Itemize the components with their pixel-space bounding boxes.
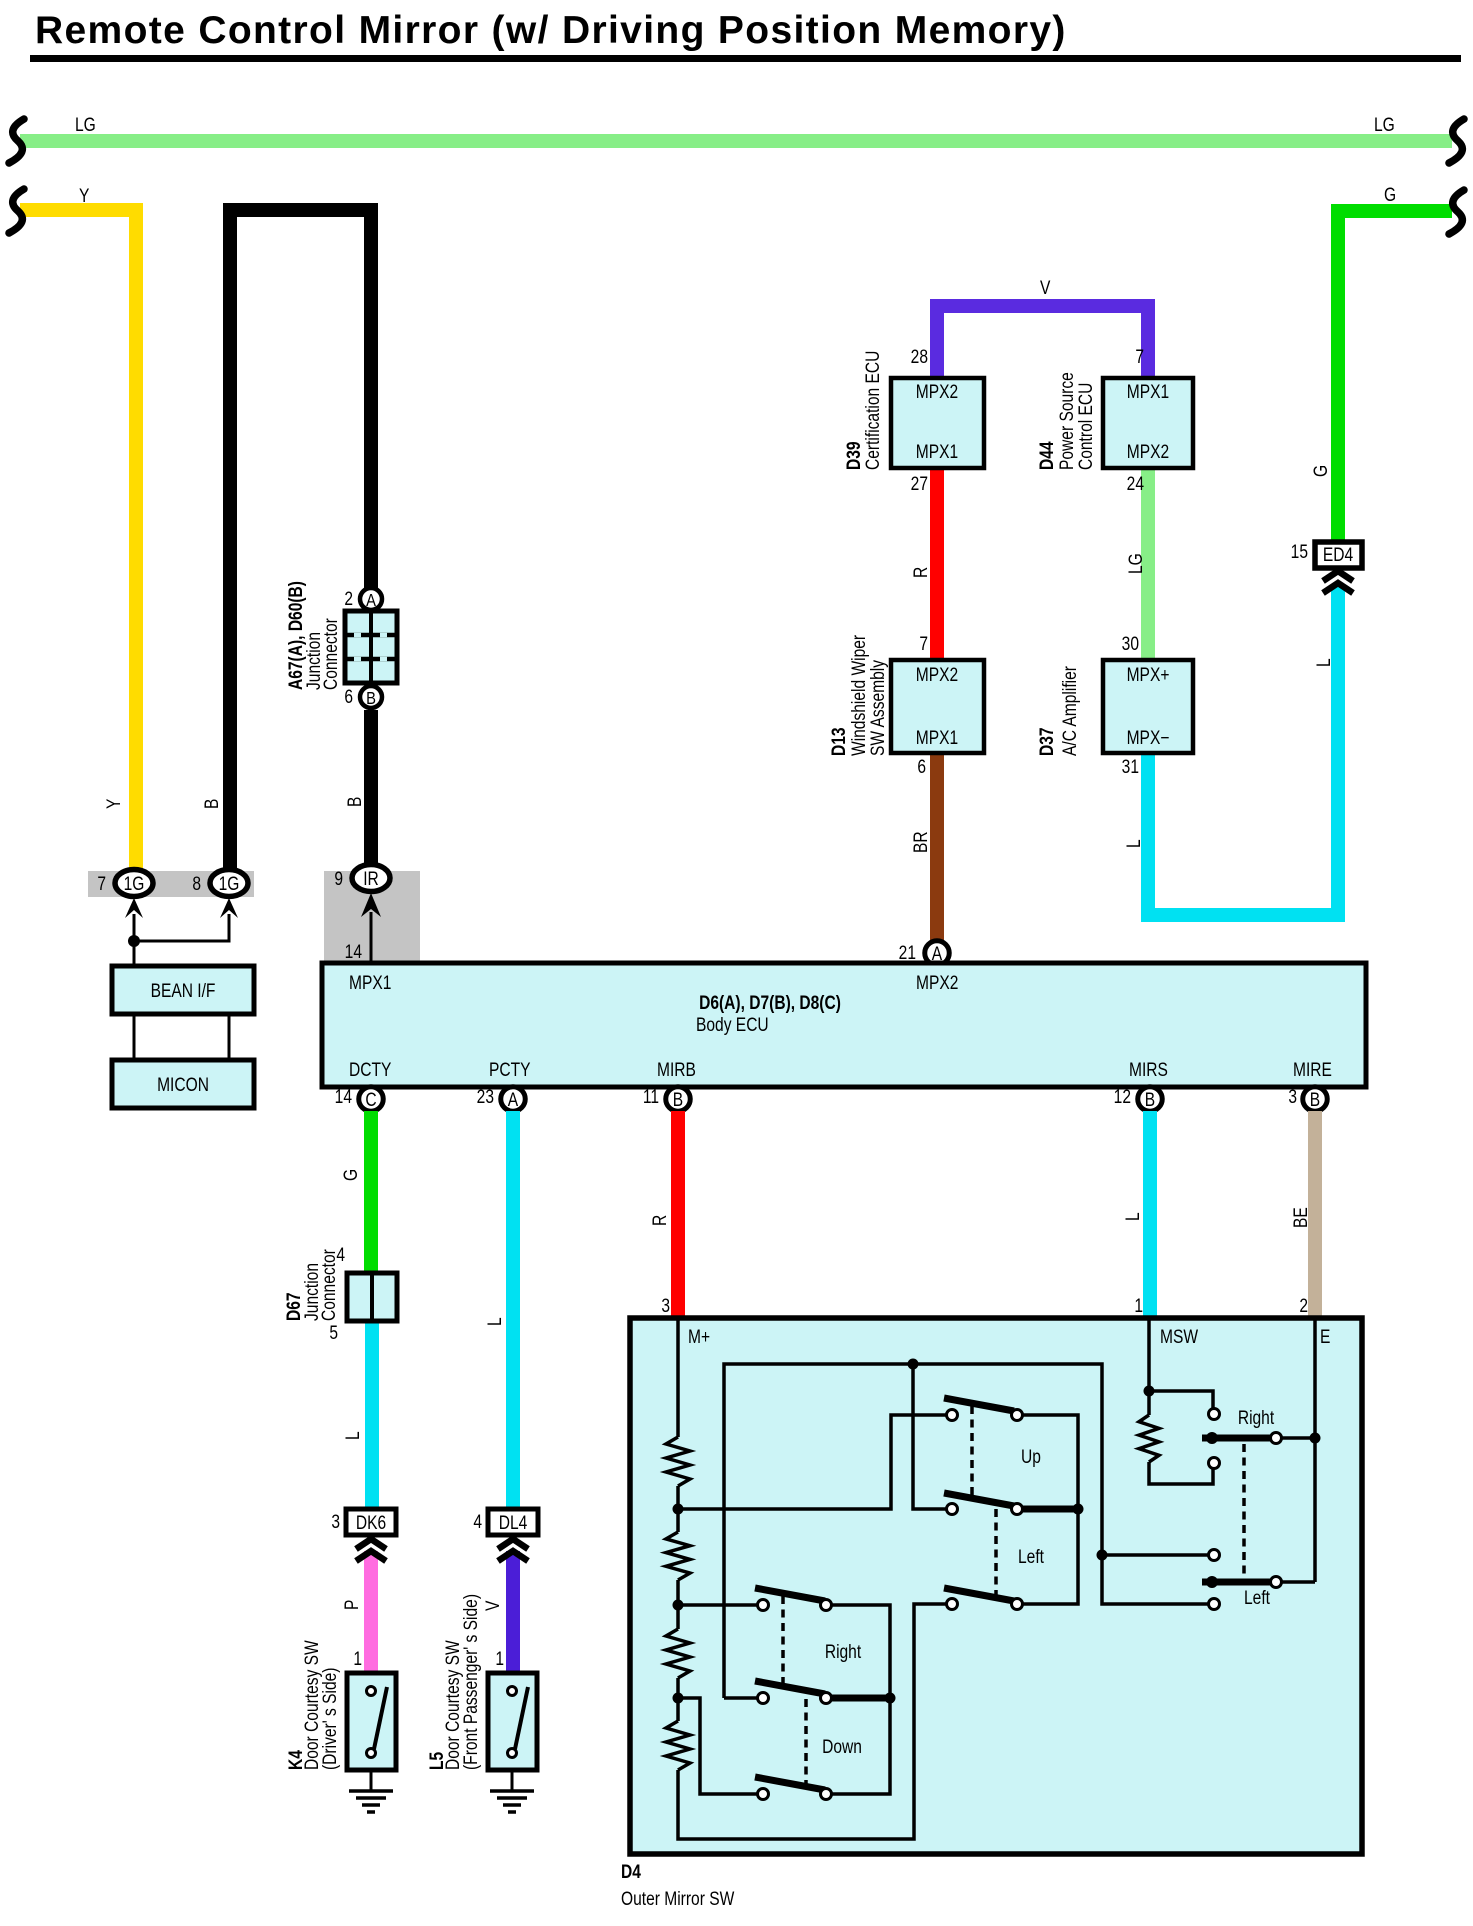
node A pin2 [360,588,382,610]
ECU D44 Power Source Control ECU [1103,378,1193,468]
wire R (D39 to D13) [930,468,944,660]
node R3 junction [673,1693,684,1704]
svg-text:Outer Mirror SW: Outer Mirror SW [621,1888,735,1910]
svg-text:Down: Down [822,1736,862,1758]
wire L (D67 to DK6) [365,1318,379,1508]
svg-text:MPX2: MPX2 [916,664,958,686]
wire B (connector to IR) [364,710,378,866]
svg-text:Y: Y [103,798,125,809]
node 1G pin8 [210,870,248,897]
wire Y trunk [20,210,136,877]
svg-text:14: 14 [345,941,363,963]
svg-text:Connector: Connector [318,1249,340,1321]
svg-text:MICON: MICON [157,1074,209,1096]
squiggle right G [1449,190,1464,234]
wire V (DL4 to L5) [506,1551,520,1673]
arrow under 1G pin8 [220,898,238,918]
wire IR to body ECU [370,912,373,963]
svg-text:MPX1: MPX1 [1127,381,1169,403]
wire L MIRS [1143,1111,1157,1318]
switch Up/Left contacts [947,1410,958,1421]
svg-text:28: 28 [911,346,928,368]
svg-text:L: L [1122,1212,1144,1221]
wire V [937,306,1148,378]
svg-text:14: 14 [335,1086,353,1108]
svg-text:2: 2 [344,588,353,610]
node R1 junction [673,1504,684,1515]
svg-text:D37: D37 [1036,727,1058,756]
svg-text:MIRB: MIRB [657,1059,696,1081]
wire resistor bottom to mirror common [678,1604,947,1839]
M+ resistor ladder [676,1318,680,1437]
ECU D39 Certification ECU [891,378,984,468]
node B pin3 [1303,1087,1328,1112]
svg-text:11: 11 [643,1086,659,1108]
svg-text:Right: Right [825,1641,861,1663]
node C pin14 [359,1087,384,1112]
svg-text:L: L [1313,658,1335,667]
svg-text:MPX+: MPX+ [1127,664,1170,686]
svg-text:V: V [482,1600,504,1611]
svg-text:BR: BR [910,831,932,853]
svg-text:A: A [508,1089,519,1111]
svg-text:21: 21 [899,942,916,964]
svg-text:6: 6 [344,686,353,708]
BEAN I/F box [112,966,254,1014]
squiggle right LG [1449,119,1464,163]
svg-text:G: G [1384,184,1396,206]
connector DK6 [346,1509,396,1535]
svg-text:L: L [1123,839,1145,848]
E bus [1313,1318,1317,1582]
MSW selector top contacts [1209,1409,1220,1420]
chevron DL4 [498,1539,528,1549]
svg-text:C: C [365,1089,376,1111]
MICON box [112,1060,254,1108]
svg-text:6: 6 [917,756,926,778]
svg-text:12: 12 [1114,1086,1131,1108]
connector ED4 [1315,542,1362,568]
svg-text:ED4: ED4 [1323,544,1354,566]
svg-text:3: 3 [661,1295,670,1317]
svg-text:SW Assembly: SW Assembly [867,660,889,756]
MSW selector arm top [1202,1435,1272,1442]
node B pin11 [666,1087,691,1112]
wire B trunk [230,210,371,877]
svg-text:Remote Control Mirror (w/ Driv: Remote Control Mirror (w/ Driving Positi… [35,9,1067,52]
svg-text:MIRE: MIRE [1293,1059,1332,1081]
svg-text:B: B [1145,1089,1155,1111]
wire LG trunk [20,134,1452,148]
svg-text:5: 5 [329,1322,338,1344]
gray pad 1G [88,871,254,897]
node B pin6 [360,686,382,708]
node B pin12 [1138,1087,1163,1112]
MSW selector arm bottom [1202,1579,1272,1586]
svg-text:(Driver' s Side): (Driver' s Side) [319,1668,341,1770]
gray pad IR [324,871,420,963]
svg-text:DL4: DL4 [499,1512,528,1534]
node R2 junction [673,1600,684,1611]
junction connector A67(A) D60(B) [345,611,397,683]
svg-text:V: V [1040,277,1051,299]
svg-text:B: B [1310,1089,1320,1111]
switch Up/Left levers [944,1398,1014,1411]
svg-text:PCTY: PCTY [489,1059,531,1081]
svg-text:G: G [340,1169,362,1181]
node 1G pin7 [115,870,153,897]
svg-text:MPX2: MPX2 [916,972,958,994]
wire LG (D44 to D37) [1141,468,1155,660]
svg-text:MPX1: MPX1 [916,727,958,749]
svg-text:3: 3 [331,1511,340,1533]
wire L PCTY [506,1111,520,1508]
svg-text:Certification ECU: Certification ECU [862,351,884,470]
svg-text:9: 9 [334,868,343,890]
svg-text:MPX2: MPX2 [1127,441,1169,463]
svg-text:R: R [649,1215,671,1226]
D4 Outer Mirror SW box [630,1318,1362,1854]
svg-text:A: A [366,591,376,611]
svg-text:P: P [341,1600,363,1610]
wire P (DK6 to K4) [364,1551,378,1673]
wire BE MIRE [1308,1111,1322,1318]
svg-text:A/C Amplifier: A/C Amplifier [1059,666,1081,756]
svg-text:1G: 1G [219,873,240,895]
svg-text:MSW: MSW [1160,1326,1199,1348]
switch Right/Down levers [755,1588,825,1601]
svg-text:E: E [1320,1326,1330,1348]
svg-text:1: 1 [1134,1295,1143,1317]
svg-text:DCTY: DCTY [349,1059,392,1081]
svg-text:24: 24 [1127,473,1145,495]
MSW sensing resistor branch [1147,1318,1151,1415]
svg-text:4: 4 [473,1511,482,1533]
up/left switch right bus [1017,1415,1078,1604]
ground L5 [511,1770,514,1791]
D13 Windshield Wiper SW Assembly [891,660,984,753]
svg-text:Connector: Connector [320,618,342,690]
top bus wire [724,1364,1208,1698]
switch K4 [347,1673,396,1770]
D37 A/C Amplifier [1103,660,1193,753]
wire L (D37 to ED4) [1148,586,1338,915]
svg-text:LG: LG [1374,114,1395,136]
wire BR (D13 to body ECU pin 21) [930,751,944,944]
svg-text:Left: Left [1244,1587,1270,1609]
svg-text:1G: 1G [124,873,145,895]
svg-text:L: L [342,1431,364,1440]
switch Right/Down contacts [758,1600,769,1611]
node top bus junction [908,1359,919,1370]
chevron ED4 [1323,571,1353,581]
svg-text:Y: Y [79,185,90,207]
svg-text:27: 27 [911,473,928,495]
svg-text:3: 3 [1288,1086,1297,1108]
svg-text:MPX−: MPX− [1127,727,1170,749]
connector DL4 [488,1509,538,1535]
svg-text:30: 30 [1122,633,1139,655]
svg-text:1: 1 [495,1648,504,1670]
svg-text:B: B [201,799,223,809]
switch L5 [488,1673,537,1770]
svg-text:D13: D13 [828,727,850,756]
wires BEAN-MICON [133,1014,136,1060]
svg-text:MPX2: MPX2 [916,381,958,403]
svg-text:MPX1: MPX1 [916,441,958,463]
wire G DCTY [364,1111,378,1275]
svg-text:MIRS: MIRS [1129,1059,1168,1081]
svg-text:BEAN I/F: BEAN I/F [151,980,216,1002]
svg-text:8: 8 [192,873,201,895]
svg-text:G: G [1310,465,1332,477]
wire BEAN to arrows [133,914,136,965]
svg-text:7: 7 [919,633,928,655]
svg-text:L: L [484,1317,506,1326]
MSW selector bottom contacts [1209,1550,1220,1561]
arrow under 1G pin7 [125,898,143,918]
squiggle left LG [9,119,24,163]
chevron DK6 [356,1539,386,1549]
right/down switch right bus [826,1605,890,1794]
svg-text:B: B [344,797,366,807]
svg-text:2: 2 [1299,1295,1308,1317]
svg-text:(Front Passenger' s Side): (Front Passenger' s Side) [460,1594,482,1770]
svg-text:Control ECU: Control ECU [1075,383,1097,470]
svg-text:Body ECU: Body ECU [696,1014,769,1036]
svg-text:DK6: DK6 [356,1512,386,1534]
Body ECU box [322,963,1366,1087]
svg-text:LG: LG [75,114,96,136]
svg-text:BE: BE [1290,1207,1312,1228]
svg-text:D4: D4 [621,1861,641,1883]
wire R MIRB [671,1111,685,1318]
svg-text:R: R [910,567,932,578]
svg-text:Right: Right [1238,1407,1274,1429]
svg-text:Left: Left [1018,1546,1044,1568]
squiggle left Y [9,189,24,233]
node IR pin9 [352,865,390,892]
svg-text:Up: Up [1021,1446,1041,1468]
svg-text:B: B [366,689,376,709]
right/down switch left feeds [678,1603,757,1607]
node A pin21 [925,941,950,966]
svg-text:31: 31 [1122,756,1139,778]
svg-text:M+: M+ [688,1326,710,1348]
svg-text:MPX1: MPX1 [349,972,391,994]
svg-text:IR: IR [363,868,379,890]
node MSW switch feed junction [1097,1550,1108,1561]
arrow under IR [361,893,381,917]
svg-text:D6(A), D7(B), D8(C): D6(A), D7(B), D8(C) [699,992,841,1014]
svg-text:15: 15 [1291,541,1308,563]
svg-text:1: 1 [353,1648,362,1670]
svg-text:B: B [673,1089,683,1111]
svg-text:D44: D44 [1036,441,1058,470]
node A pin23 [501,1087,526,1112]
wire G trunk [1338,211,1452,546]
svg-text:7: 7 [97,873,106,895]
svg-text:LG: LG [1125,553,1147,574]
svg-text:7: 7 [1135,346,1144,368]
ground K4 [370,1770,373,1791]
svg-text:23: 23 [477,1086,494,1108]
